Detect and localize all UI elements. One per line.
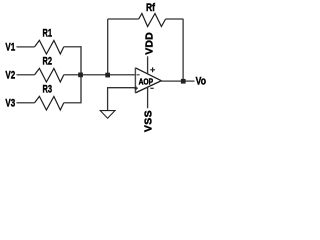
svg-text:R1: R1 [43,28,53,40]
op-amp VSS polarity marker (minus) [150,87,153,89]
wire R1 output to bus [64,46,82,48]
resistor R1 [35,40,64,54]
junction output node [181,79,186,84]
wire non-inverting input to ground [108,88,136,111]
wire V1 to R1 [17,46,35,48]
wire op-amp output to Vo [161,80,194,82]
op-amp VSS pin wire [147,87,149,108]
wire summing bus (vertical) [80,46,82,103]
op-amp inverting input marker (minus) [137,74,140,76]
op-amp VDD pin wire [147,56,149,73]
wire Rf to output node (vertical drop) [182,19,184,81]
svg-text:R3: R3 [43,84,53,96]
ground symbol [100,111,115,119]
wire Rf right lead [166,18,184,20]
wire V3 to R3 [17,102,35,104]
svg-text:VDD: VDD [143,32,155,55]
op-amp non-inverting input marker (plus) [134,86,138,90]
resistor Rf [139,14,166,27]
svg-text:V3: V3 [5,98,15,110]
wire R3 output to bus [64,102,82,104]
op-amp U1 triangle [135,68,161,93]
wire R2 output to op-amp inverting input [64,74,136,76]
junction feedback tap [105,73,110,78]
svg-text:R2: R2 [43,56,53,68]
wire V2 to R2 [17,74,35,76]
svg-text:VSS: VSS [142,110,154,132]
resistor R3 [35,96,64,110]
svg-text:V2: V2 [5,70,15,82]
resistor R2 [35,68,64,82]
op-amp VDD polarity marker (plus) [150,67,155,72]
wire Rf left lead [108,18,139,20]
junction summing node [78,73,83,78]
svg-text:AOP: AOP [139,77,154,86]
svg-text:V1: V1 [5,42,15,54]
svg-text:Vo: Vo [196,76,206,88]
svg-text:Rf: Rf [146,2,155,14]
wire feedback branch (vertical up to Rf) [107,19,109,75]
